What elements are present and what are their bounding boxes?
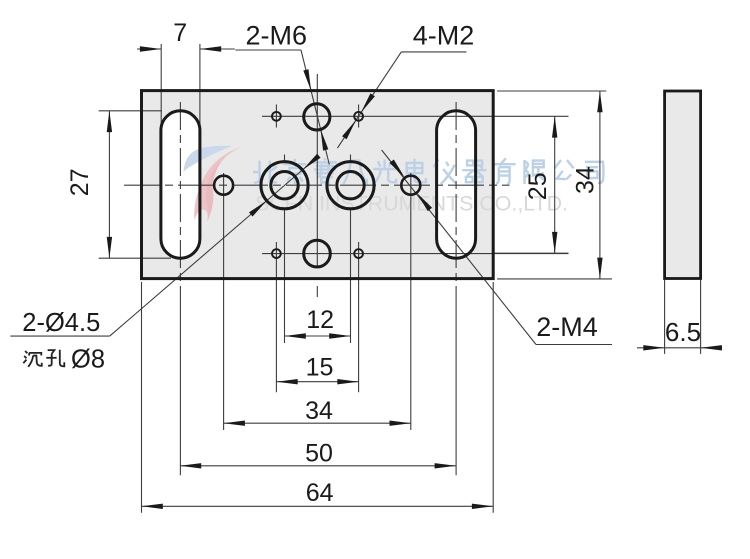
centerline counterbore left column: [284, 155, 286, 162]
centerline left slot: [179, 102, 181, 290]
extension line left slot center for dim 50: [179, 290, 181, 475]
dimension 27: [108, 111, 110, 258]
svg-text:2-M4: 2-M4: [536, 312, 598, 342]
dimension 34 side: [599, 91, 601, 279]
svg-text:2-M6: 2-M6: [246, 21, 308, 51]
dimension 64: [142, 505, 494, 507]
svg-text:7: 7: [173, 19, 187, 47]
hole M4 left: [214, 176, 233, 195]
dimension 12: [285, 335, 351, 337]
hole M4 right: [401, 176, 420, 195]
extension lines for dim 27: [99, 110, 162, 112]
centerline bottom hole row: [262, 253, 569, 255]
extension lines for dim 7: [160, 44, 162, 134]
leader label 2-M4: [536, 344, 612, 346]
centerline plate vertical center: [316, 74, 318, 269]
label text counterbore dia8 (chinese chen kong): [23, 350, 64, 367]
svg-text:27: 27: [66, 168, 94, 196]
dimension 34 bottom: [224, 422, 411, 424]
plate front view fill: [142, 91, 494, 279]
svg-text:34: 34: [305, 397, 333, 425]
centerline top hole row: [262, 115, 569, 117]
watermark logo: [184, 146, 244, 222]
plate front view outline: [142, 91, 494, 279]
dimension 50: [180, 465, 456, 467]
centerline M2 right column: [358, 105, 360, 128]
centerline M4 left column: [223, 173, 225, 430]
svg-text:2-Ø4.5: 2-Ø4.5: [22, 309, 100, 337]
watermark chinese company name: [253, 158, 604, 185]
left slot outline: [161, 111, 200, 258]
right slot outline: [437, 111, 476, 258]
svg-text:50: 50: [305, 440, 333, 468]
hole M2 bottom left: [272, 249, 281, 258]
counterbore hole right: [327, 162, 374, 209]
side view fill: [663, 90, 702, 280]
leader label 2-dia4.5 counterbore dia8: [10, 335, 109, 337]
extension line bottom for dim 25: [492, 252, 569, 254]
leader label 4-M2: [401, 51, 466, 53]
counterbore hole left: [261, 162, 308, 209]
svg-text:6.5: 6.5: [665, 317, 701, 347]
svg-text:64: 64: [306, 479, 334, 507]
extension line right slot center for dim 50: [455, 290, 457, 475]
centerline right slot: [455, 102, 457, 290]
svg-text:12: 12: [306, 306, 334, 334]
left slot fill: [161, 111, 200, 258]
hole M2 bottom right: [354, 249, 363, 258]
extension lines for dim 34 side: [497, 90, 606, 92]
hole M2 top right: [354, 112, 363, 121]
hole M6 bottom: [304, 240, 331, 267]
centerline counterbore right column: [350, 155, 352, 162]
dimension 25: [554, 116, 556, 253]
dimension 6.5: [637, 347, 665, 349]
dimension 15: [276, 381, 358, 383]
extension lines for dim 6.5: [664, 280, 666, 354]
centerline M2 left column: [275, 105, 277, 128]
svg-text:15: 15: [306, 354, 334, 382]
centerline horizontal main axis: [124, 184, 510, 186]
svg-text:34: 34: [571, 166, 599, 194]
hole M6 top: [304, 104, 330, 130]
leader label 2-M6: [235, 49, 301, 51]
side view outline: [665, 91, 701, 279]
extension lines plate edges for dim 64: [141, 282, 143, 513]
svg-text:25: 25: [524, 172, 552, 200]
svg-text:4-M2: 4-M2: [413, 21, 475, 51]
svg-text:Ø8: Ø8: [71, 346, 105, 374]
hole M2 top left: [272, 112, 281, 121]
centerline M4 right column: [410, 173, 412, 430]
dimension 7: [137, 48, 161, 50]
right slot fill: [437, 111, 476, 258]
